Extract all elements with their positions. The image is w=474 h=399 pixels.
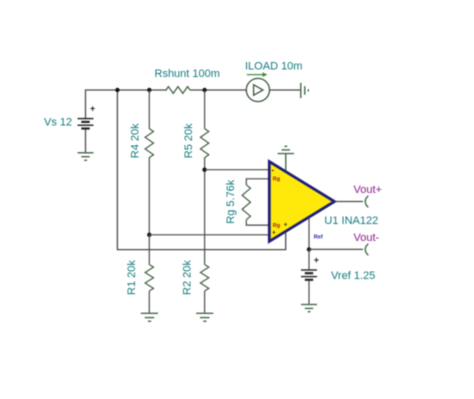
- node junction dot at 117,90: [115, 88, 119, 92]
- ground above op-amp: [278, 146, 294, 172]
- svg-text:Ref: Ref: [314, 235, 323, 241]
- ground under Vs: [78, 153, 94, 161]
- svg-text:Vout+: Vout+: [354, 184, 382, 196]
- wire R1 bottom lead: [148, 291, 150, 313]
- wire Rg loop top: [246, 179, 270, 185]
- svg-text:ILOAD 10m: ILOAD 10m: [245, 60, 302, 72]
- svg-text:Rg: Rg: [273, 176, 280, 182]
- op-amp U1 INA122 triangle: [269, 162, 334, 242]
- wire R4 top lead: [148, 90, 150, 129]
- wire R2 bottom lead: [204, 291, 206, 313]
- wire R4 bottom lead down to node: [148, 157, 150, 234]
- wire output: [335, 201, 364, 203]
- wire R1 top lead: [148, 235, 150, 265]
- node junction dot at 149,90: [147, 88, 151, 92]
- node junction dot at 149,235: [147, 233, 151, 237]
- wire Vs to ground: [85, 130, 87, 153]
- wire Rshunt to ILOAD: [190, 89, 246, 91]
- wire Ref node to Vref battery: [308, 249, 310, 269]
- wire Ref pin down: [308, 218, 310, 249]
- svg-text:R2 20k: R2 20k: [181, 260, 193, 295]
- current source ILOAD circle: [246, 78, 269, 101]
- svg-text:R5 20k: R5 20k: [183, 123, 195, 158]
- wire top rail from Vs to Rshunt: [86, 90, 168, 118]
- svg-text:+: +: [314, 255, 319, 265]
- wire R5 top lead: [204, 90, 206, 129]
- svg-text:U1 INA122: U1 INA122: [324, 215, 378, 227]
- resistor Rshunt zigzag: [166, 87, 190, 94]
- svg-text:Vs 12: Vs 12: [44, 116, 72, 128]
- port Vout+: [365, 196, 368, 208]
- node junction dot at 205,90: [202, 88, 206, 92]
- current direction arrow: [247, 74, 264, 76]
- wire inverting input: [205, 169, 270, 171]
- svg-text:+: +: [272, 230, 276, 237]
- wire to Vout- port: [309, 248, 363, 250]
- svg-text:-: -: [272, 165, 275, 174]
- wire Rg loop bottom: [246, 220, 270, 225]
- node junction dot at 205,170: [202, 168, 206, 172]
- node junction dot at 309,249: [307, 247, 311, 251]
- svg-text:Rshunt 100m: Rshunt 100m: [155, 68, 220, 80]
- resistor R5 zigzag: [200, 129, 208, 158]
- ground under Vref: [301, 305, 317, 312]
- current source ILOAD inner arrow: [254, 85, 263, 96]
- ground under R2: [196, 313, 213, 321]
- wire left column x117: [117, 90, 285, 250]
- battery Vref: [301, 270, 317, 280]
- svg-text:+: +: [284, 222, 288, 229]
- ground under R1: [141, 313, 158, 321]
- ground sideways right of ILOAD: [301, 83, 309, 98]
- svg-text:Rg: Rg: [273, 223, 280, 229]
- wire Vref to ground: [308, 281, 310, 305]
- resistor R1 zigzag: [145, 265, 153, 291]
- port Vout-: [365, 244, 368, 255]
- wire ILOAD to ground: [270, 89, 301, 91]
- svg-text:Rg 5.76k: Rg 5.76k: [225, 179, 237, 224]
- resistor R4 zigzag: [145, 129, 153, 158]
- svg-text:Vout-: Vout-: [354, 232, 380, 244]
- resistor Rg zigzag: [242, 185, 250, 220]
- wire non-inverting input: [149, 234, 270, 236]
- wire R5 bottom lead to node and R2 top: [204, 157, 206, 264]
- svg-text:R4 20k: R4 20k: [130, 123, 142, 158]
- svg-text:+: +: [90, 104, 95, 114]
- resistor R2 zigzag: [200, 265, 208, 291]
- svg-text:Vref 1.25: Vref 1.25: [331, 270, 375, 282]
- battery Vs: [78, 119, 94, 129]
- svg-text:R1 20k: R1 20k: [126, 260, 138, 295]
